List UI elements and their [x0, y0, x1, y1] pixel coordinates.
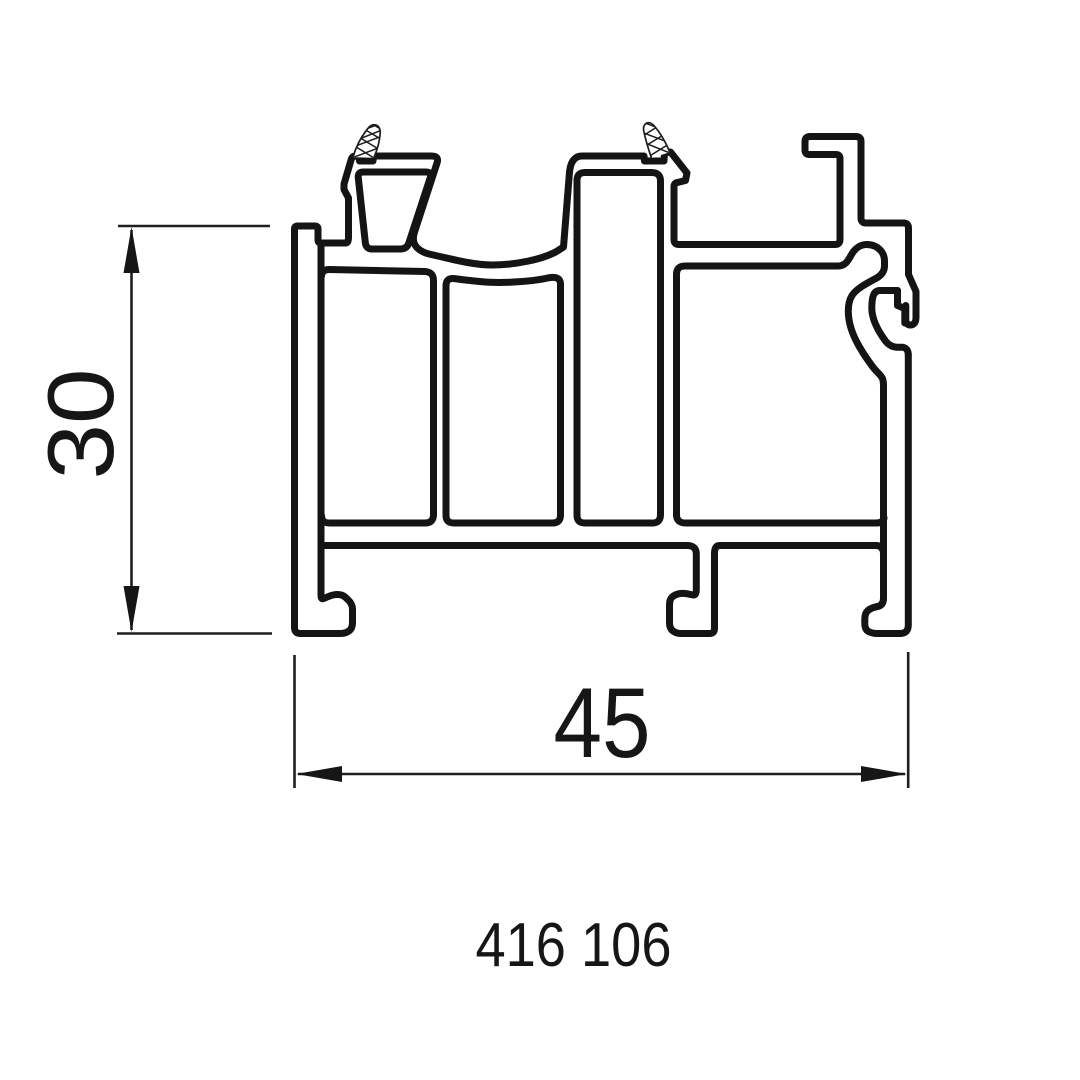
chamber 3 [577, 173, 661, 524]
seal 2 (hatched gasket, tip up-left) [633, 112, 677, 158]
svg-text:30: 30 [28, 369, 133, 480]
lower cavity ceiling (left) + middle screw-port left leg with left-pointing knob + middle pad [322, 546, 884, 634]
svg-text:416 106: 416 106 [476, 911, 672, 980]
45 dim extension line left [293, 655, 296, 788]
arrow up (30 top) [124, 227, 140, 273]
outer contour: left wall, glazing groove, top surfaces, sash dip, beak, rebate floor, hook, shelf, right flap [295, 137, 917, 628]
arrow right (45 right) [861, 766, 907, 782]
arrow left (45 left) [296, 766, 342, 782]
svg-text:45: 45 [554, 667, 651, 778]
chamber 4 left + top edge + euro-groove serpentine wall + corridor + right foot + bottom right wall [677, 245, 909, 634]
euro-groove inner hook (tongue attached to lower wall) [872, 291, 909, 356]
chamber 1 [322, 270, 434, 524]
30 dimension line [130, 230, 133, 630]
left wall inner edge + left foot with right-pointing knob [295, 244, 353, 634]
30 dim extension line top [118, 225, 270, 228]
chamber 2 [446, 277, 561, 523]
seal 1 (hatched gasket, tip up-right) [345, 117, 389, 159]
chamber 4 bottom edge [677, 515, 885, 524]
trapezoid glazing-bead chamber [358, 172, 430, 249]
euro-groove hook right side with step notch [898, 291, 905, 324]
30 dim extension line bottom [117, 632, 272, 635]
45 dim extension line right [907, 652, 910, 788]
45 dimension line [298, 773, 905, 776]
arrow down (30 bottom) [124, 586, 140, 632]
